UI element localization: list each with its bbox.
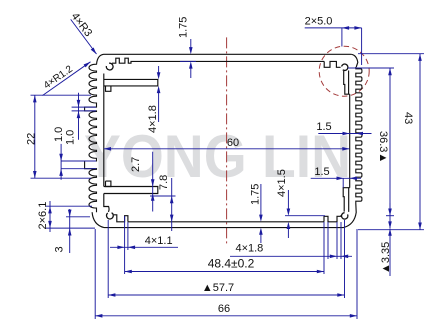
leader 4xR1.2 [43, 62, 91, 96]
profile bottom-right corner arc [344, 204, 357, 228]
dim 2.7 [152, 152, 154, 212]
red centerline [226, 37, 228, 244]
dim 1.75 bottom [260, 184, 262, 218]
svg-text:4×1.5: 4×1.5 [276, 169, 288, 197]
dim 4x1.5 [287, 190, 289, 212]
red detail circle [319, 46, 369, 96]
dim 43 [419, 54, 421, 230]
profile bottom-left corner arc [92, 212, 104, 227]
top-left shelf tab [106, 86, 111, 91]
profile bottom outer line [104, 227, 344, 229]
svg-text:4×1.1: 4×1.1 [145, 235, 173, 247]
bottom-left shelf [104, 187, 158, 194]
svg-text:43: 43 [402, 112, 414, 124]
svg-text:36.3▲: 36.3▲ [377, 131, 389, 163]
top-right rib [344, 71, 350, 95]
svg-text:4×1.8: 4×1.8 [147, 105, 159, 133]
screw boss hook top-left [106, 63, 113, 70]
svg-text:2×5.0: 2×5.0 [305, 16, 333, 28]
dim 1.0 upper [78, 93, 80, 140]
svg-text:7.8: 7.8 [158, 175, 170, 190]
bottom-left wall lower face [104, 194, 109, 212]
svg-text:4×1.8: 4×1.8 [235, 243, 263, 255]
svg-text:22: 22 [26, 133, 38, 145]
dim 3.35 [389, 203, 391, 215]
dim 4x1.8 bottom [230, 255, 352, 257]
svg-text:2.7: 2.7 [130, 157, 142, 172]
leader 4xR3 [71, 19, 97, 54]
svg-text:66: 66 [218, 303, 230, 315]
dim 1.5 upper right [318, 133, 371, 135]
dim 22 [34, 95, 36, 178]
top-right teeth [324, 61, 340, 67]
bottom-left shelf tab [106, 181, 111, 186]
dim 1.5 lower right [311, 177, 361, 179]
dim 66 [95, 315, 357, 317]
svg-text:1.75: 1.75 [250, 184, 262, 205]
svg-text:48.4±0.2: 48.4±0.2 [208, 257, 255, 271]
bottom-right rib [343, 188, 350, 212]
dim 2x5.0 [305, 27, 362, 29]
left wall inner line [103, 74, 105, 187]
dim 3 [69, 209, 71, 253]
svg-text:1.0: 1.0 [53, 127, 65, 142]
profile top-left corner arc [97, 54, 104, 63]
dim 1.75 top [190, 39, 192, 51]
screw boss hook top-right [342, 64, 348, 70]
screw boss hook bottom-left [106, 213, 113, 219]
dim 36.3 [389, 68, 391, 229]
svg-text:▲3.35: ▲3.35 [380, 242, 392, 274]
dim 57.7 [108, 294, 344, 296]
profile top-right corner arc [351, 54, 358, 67]
svg-text:1.5: 1.5 [316, 121, 331, 133]
top wall inner line with top-left teeth [112, 58, 324, 63]
dim 1.0 lower [60, 144, 62, 180]
svg-text:YONG LIN: YONG LIN [84, 123, 351, 190]
top-left shelf [104, 79, 158, 86]
svg-text:3: 3 [54, 246, 66, 252]
svg-text:1.75: 1.75 [178, 17, 190, 38]
dim 60 [104, 148, 350, 150]
right wall inner line [349, 94, 351, 188]
bottom-left foot and tooth [114, 215, 128, 222]
dim 4x1.1 [110, 246, 178, 248]
profile right wall serration [356, 67, 362, 204]
bottom-right teeth [324, 216, 342, 222]
dim 4x1.8 top [158, 66, 160, 77]
dim 2x6.1 [49, 201, 51, 232]
svg-text:1.0: 1.0 [65, 130, 77, 145]
dim 48.4 [125, 271, 324, 273]
svg-text:2×6.1: 2×6.1 [37, 202, 49, 230]
profile top outer line [104, 53, 352, 55]
svg-text:1.5: 1.5 [314, 166, 329, 178]
svg-text:▲57.7: ▲57.7 [202, 282, 234, 294]
dim 7.8 [171, 178, 173, 231]
svg-text:60: 60 [227, 137, 239, 149]
screw boss hook bottom-right [342, 213, 348, 219]
bottom wall inner line [128, 221, 324, 223]
profile left wall serration [85, 64, 97, 213]
